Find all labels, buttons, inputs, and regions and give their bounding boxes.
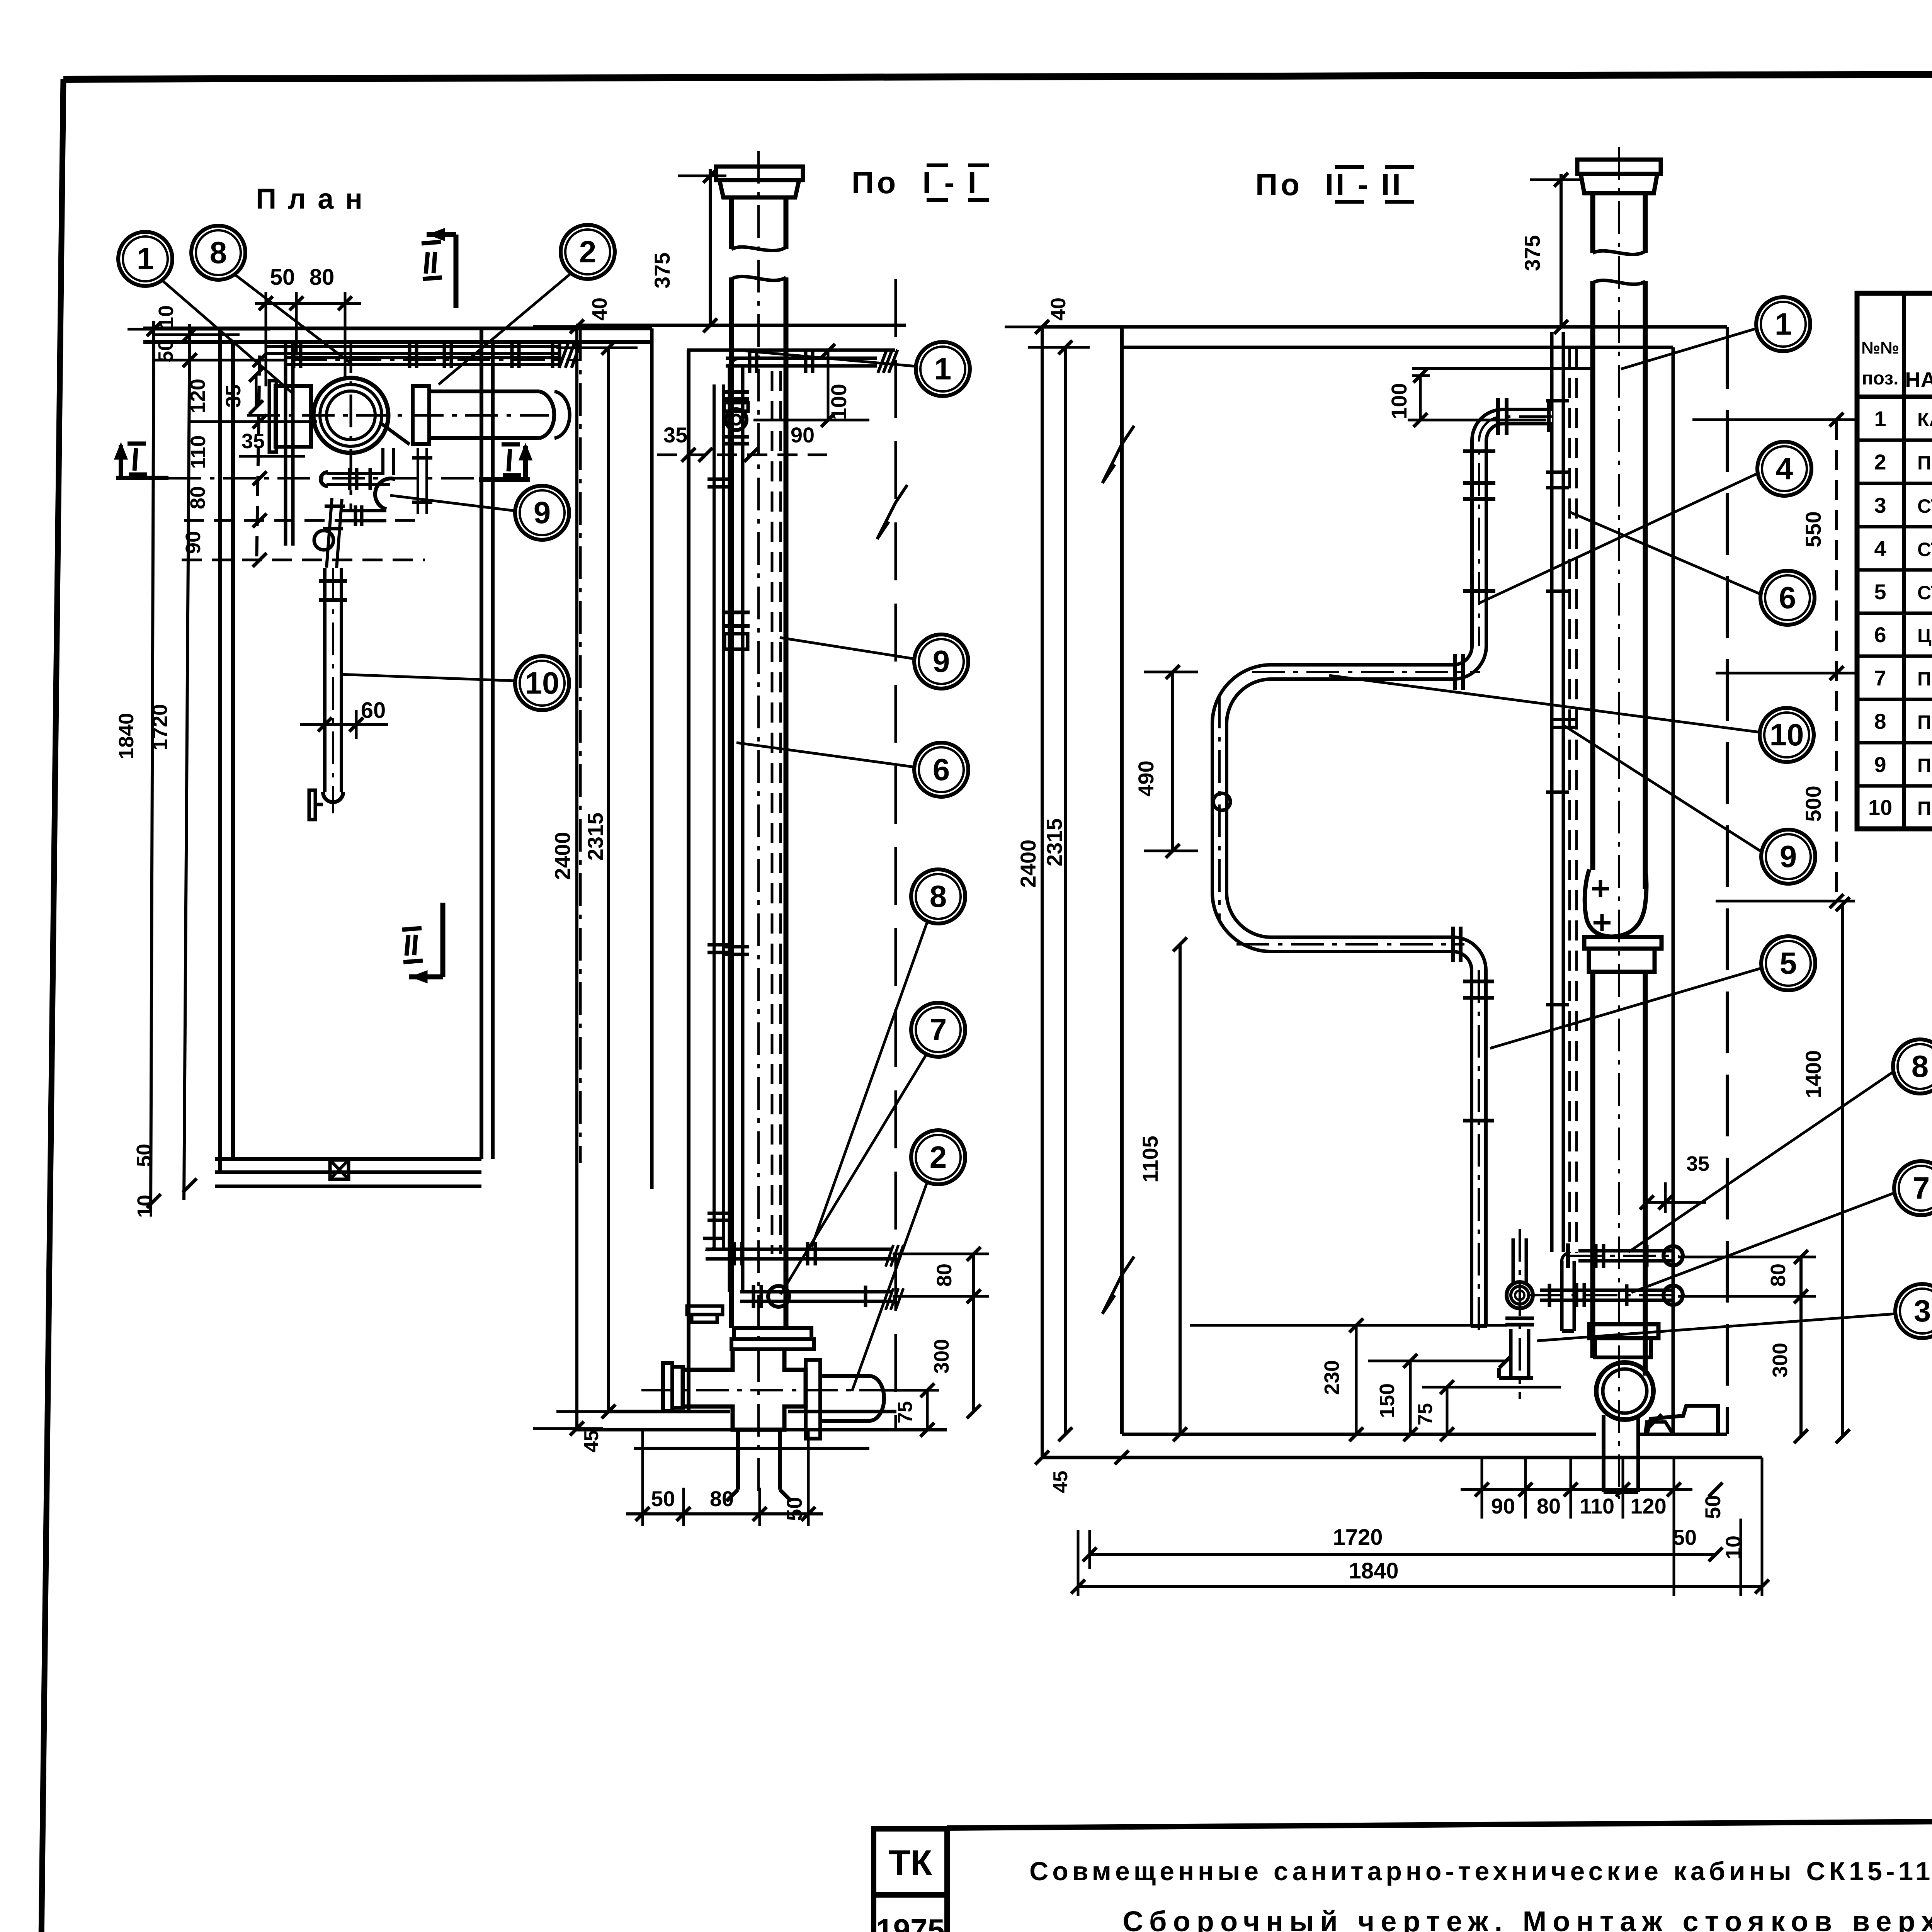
svg-text:1: 1 — [137, 241, 154, 276]
svg-text:50: 50 — [270, 265, 295, 290]
svg-text:8: 8 — [930, 879, 947, 913]
II-II bottom dims 90 80 110 120 — [1461, 1488, 1692, 1491]
II-II dims 230/150/75 — [1355, 1325, 1358, 1434]
II-II collars on riser bundle — [1546, 399, 1569, 403]
svg-text:№№: №№ — [1861, 338, 1899, 357]
II-II canal branch fitting — [1585, 869, 1646, 937]
svg-text:По: По — [852, 165, 899, 200]
svg-text:150: 150 — [1376, 1383, 1399, 1418]
I-I canal stack bell top — [716, 167, 803, 180]
plan: tee right socket — [413, 386, 429, 444]
svg-text:35: 35 — [241, 430, 265, 453]
svg-text:9: 9 — [1780, 839, 1797, 874]
svg-text:поз.: поз. — [1862, 368, 1899, 389]
plan: lower small tee on canal — [417, 448, 428, 514]
svg-text:80: 80 — [310, 265, 335, 290]
svg-text:6: 6 — [1779, 580, 1796, 615]
svg-text:Сборочный чертеж. Монтаж сто: Сборочный чертеж. Монтаж стояков верхнег… — [1122, 1905, 1932, 1932]
II-II canal floor flange — [1596, 1362, 1653, 1420]
plan: bottom wall — [215, 1157, 481, 1161]
svg-text:9: 9 — [933, 644, 950, 679]
svg-text:1: 1 — [934, 352, 952, 386]
svg-text:2315: 2315 — [583, 813, 607, 861]
svg-text:5: 5 — [1780, 946, 1797, 980]
plan: canal tee circles — [313, 378, 388, 453]
svg-text:5: 5 — [1874, 580, 1886, 604]
svg-text:10: 10 — [525, 666, 560, 700]
svg-text:45: 45 — [1049, 1471, 1072, 1493]
svg-text:50: 50 — [782, 1497, 806, 1521]
svg-text:ПОДВОДКА ХОЛОДНОЙ ВОДЫ: ПОДВОДКА ХОЛОДНОЙ ВОДЫ — [1917, 668, 1932, 690]
II-II feed pipes bottom (pos.7/8) — [1578, 1249, 1673, 1253]
plan: horizontal extension rows — [128, 328, 270, 331]
plan: callout 9 — [515, 486, 569, 540]
svg-text:I - I: I - I — [922, 165, 979, 200]
svg-text:4: 4 — [1874, 536, 1886, 561]
svg-text:1840: 1840 — [1349, 1558, 1398, 1583]
svg-text:110: 110 — [187, 435, 210, 469]
II-II dim 490 — [1171, 672, 1174, 851]
II-II left wall — [1120, 327, 1124, 1434]
svg-text:10: 10 — [133, 1195, 156, 1218]
plan: section mark I right — [479, 477, 530, 482]
II-II hot riser top part (pos.4) collars — [1463, 449, 1495, 453]
I-I dims 80/300/75 right — [893, 1253, 989, 1255]
svg-text:80: 80 — [1537, 1494, 1561, 1518]
svg-text:490: 490 — [1134, 760, 1158, 796]
II-II break mark on left wall — [1102, 426, 1134, 483]
II-II cold water riser (pos.3) — [1512, 1238, 1515, 1283]
svg-text:ПЕРЕМЫЧКА ГОРЯЧЕЙ ВОДЫ: ПЕРЕМЫЧКА ГОРЯЧЕЙ ВОДЫ — [1917, 754, 1932, 776]
svg-text:375: 375 — [650, 252, 674, 288]
plan: towel pipe bracket — [309, 790, 315, 820]
plan: tee centerlines — [247, 414, 549, 417]
svg-text:8: 8 — [1874, 709, 1886, 733]
svg-text:50: 50 — [651, 1486, 675, 1511]
II-II circulation riser dashed — [1568, 348, 1571, 1253]
II-II callout 4 — [1757, 442, 1811, 496]
svg-text:100: 100 — [827, 384, 851, 420]
II-II dim 1400 — [1841, 904, 1844, 1436]
plan: callout 10 — [515, 656, 569, 710]
plan: X anchor box — [330, 1160, 349, 1179]
II-II dims 80/300 right — [1678, 1256, 1816, 1259]
II-II callout 8 — [1893, 1039, 1932, 1094]
II-II canal below floor — [1602, 1415, 1605, 1492]
I-I callout 9 — [914, 634, 968, 689]
II-II dim 1720 row — [1090, 1553, 1716, 1556]
svg-text:План: План — [256, 183, 374, 215]
I-I riser B with valve — [728, 367, 731, 1292]
II-II jumper (peremychka pos.9) — [1552, 718, 1577, 721]
sheet border frame — [63, 73, 1932, 79]
svg-text:ПОДВОДКА КАНАЛИЗАЦИИ: ПОДВОДКА КАНАЛИЗАЦИИ — [1917, 452, 1932, 474]
I-I cross left socket — [663, 1363, 672, 1411]
I-I horizontal feed pipes bottom — [706, 1248, 893, 1251]
II-II riser pair D (hot) — [1550, 332, 1554, 1252]
plan: dim 35 pair — [255, 375, 258, 407]
II-II hot riser lower part (pos.5) — [1478, 970, 1480, 1337]
svg-text:230: 230 — [1320, 1360, 1344, 1395]
II-II canal socket at floor — [1589, 1324, 1658, 1338]
II-II callout 10 — [1760, 708, 1814, 762]
II-II canal stack pipe upper — [1590, 193, 1595, 253]
svg-text:80: 80 — [1767, 1264, 1790, 1287]
plan: dim 60 — [300, 723, 388, 726]
II-II callout 3 — [1895, 1284, 1932, 1338]
svg-text:2: 2 — [930, 1140, 947, 1174]
svg-text:2: 2 — [1874, 450, 1886, 474]
svg-text:9: 9 — [534, 495, 551, 530]
plan: section mark II top — [427, 232, 456, 237]
svg-text:375: 375 — [1520, 235, 1544, 271]
svg-text:90: 90 — [791, 423, 815, 447]
svg-text:1720: 1720 — [1333, 1525, 1383, 1550]
svg-text:90: 90 — [1491, 1494, 1515, 1518]
I-I canal centerline — [757, 151, 760, 1495]
plan: shaft partition — [284, 342, 287, 546]
I-I riser flange at floor — [687, 1306, 723, 1315]
svg-text:4: 4 — [1776, 451, 1793, 486]
plan: towel pipe (pos.10) — [323, 568, 343, 792]
svg-text:50: 50 — [1673, 1525, 1697, 1549]
I-I collar above cross — [734, 1328, 811, 1339]
svg-text:1: 1 — [1775, 307, 1792, 341]
svg-text:По: По — [1255, 167, 1303, 202]
svg-text:2: 2 — [579, 235, 597, 269]
svg-text:1840: 1840 — [115, 713, 138, 759]
svg-text:10: 10 — [1868, 795, 1892, 820]
svg-text:2315: 2315 — [1042, 818, 1066, 867]
plan: section mark II bottom — [440, 903, 446, 977]
svg-text:Совмещенные санитарно-техниче: Совмещенные санитарно-технические кабины… — [1029, 1857, 1932, 1886]
plan: branch pipes cluster — [327, 472, 390, 486]
I-I bottom dims 50 80 50 — [626, 1512, 823, 1515]
plan: tee left socket — [276, 386, 311, 447]
svg-text:7: 7 — [1913, 1171, 1930, 1205]
I-I floor lines — [609, 1410, 730, 1413]
svg-text:ПОДВОДКА ГОРЯЧЕЙ ВОДЫ: ПОДВОДКА ГОРЯЧЕЙ ВОДЫ — [1917, 711, 1932, 733]
svg-text:СТОЯК ГОРЯЧЕЙ ВОДЫ(ВЕРХНЯЯ Ч: СТОЯК ГОРЯЧЕЙ ВОДЫ(ВЕРХНЯЯ ЧАСТЬ) — [1917, 538, 1932, 560]
svg-text:500: 500 — [1801, 786, 1825, 821]
svg-text:8: 8 — [1912, 1049, 1929, 1083]
plan: callout 8 — [191, 226, 245, 280]
svg-text:СТОЯК ГОРЯЧЕЙ ВОДЫ (НИЖНЯЯ Ч: СТОЯК ГОРЯЧЕЙ ВОДЫ (НИЖНЯЯ ЧАСТЬ) — [1917, 582, 1932, 604]
II-II callout 9 — [1761, 830, 1815, 884]
II-II dims 375/40 top — [1560, 174, 1563, 327]
svg-text:2400: 2400 — [550, 832, 575, 880]
II-II canal bell top — [1577, 160, 1661, 174]
plan: pipe wall anchor hatches — [559, 342, 569, 368]
svg-text:40: 40 — [588, 298, 611, 321]
svg-text:2400: 2400 — [1016, 840, 1040, 888]
svg-text:300: 300 — [930, 1339, 953, 1374]
svg-text:СТОЯК ХОЛОДНОЙ ВОДЫ: СТОЯК ХОЛОДНОЙ ВОДЫ — [1917, 495, 1932, 517]
II-II floor pedestal — [1647, 1406, 1718, 1434]
svg-text:75: 75 — [1414, 1403, 1437, 1425]
svg-text:80: 80 — [710, 1486, 734, 1511]
I-I bottom outlet pipe — [736, 1430, 740, 1490]
svg-text:50: 50 — [133, 1144, 156, 1167]
II-II canal socket below branch — [1584, 937, 1662, 949]
I-I callout 8 — [911, 869, 965, 923]
svg-text:100: 100 — [1387, 383, 1411, 419]
II-II floor tick row — [1115, 1451, 1129, 1464]
svg-text:7: 7 — [930, 1012, 947, 1047]
I-I cross fitting — [683, 1349, 806, 1430]
I-I dim 375 — [709, 169, 712, 325]
I-I top horizontal feed pipe — [726, 357, 877, 360]
svg-text:НАИМЕНОВАНИЕ УЗЛОВ ТРУБОПРОВ: НАИМЕНОВАНИЕ УЗЛОВ ТРУБОПРОВОДОВ — [1905, 367, 1932, 392]
plan: section line I-I — [168, 477, 499, 480]
plan: cabin left wall — [218, 328, 222, 1172]
plan: section mark I left — [116, 476, 168, 480]
II-II callout 7 — [1894, 1161, 1932, 1215]
svg-text:550: 550 — [1801, 511, 1825, 547]
II-II loop vent — [1213, 793, 1230, 810]
II-II loop centerlines — [1252, 671, 1480, 673]
I-I valve on riser B — [726, 409, 747, 430]
plan: wall piping runs — [267, 345, 558, 348]
plan: callout 1 — [118, 232, 172, 286]
plan: top dim 50 80 — [255, 302, 361, 305]
svg-text:50: 50 — [154, 339, 177, 362]
II-II left dim chains 2400/2315 — [1041, 327, 1044, 1458]
plan: wall axis dash-dot — [579, 328, 582, 1163]
svg-text:6: 6 — [933, 752, 950, 787]
I-I pipe break marks — [731, 247, 786, 250]
svg-text:80: 80 — [186, 486, 209, 509]
II-II dim 1840 row — [1078, 1585, 1762, 1588]
svg-text:35: 35 — [663, 423, 687, 447]
I-I shaft left wall — [687, 350, 690, 1412]
I-I dim 100 — [827, 351, 830, 420]
title block: TK / 1975 stamp — [874, 1829, 947, 1932]
II-II dim 1105 — [1179, 944, 1182, 1434]
svg-text:1720: 1720 — [148, 704, 172, 750]
svg-text:120: 120 — [186, 379, 209, 413]
svg-text:6: 6 — [1874, 622, 1886, 647]
II-II callout 1 — [1756, 297, 1810, 351]
svg-text:7: 7 — [1874, 666, 1886, 690]
parts table grid — [1857, 293, 1932, 829]
I-I ceiling slab lines — [576, 324, 906, 327]
I-I callout 2 — [911, 1130, 965, 1184]
II-II top horizontal pipe + hot riser + towel loop + lower riser: continuous run — [1219, 417, 1552, 1326]
plan: canal pipe to right — [429, 389, 539, 393]
I-I callout 6 — [914, 743, 968, 797]
II-II right dim chain 550/500 — [1835, 420, 1838, 901]
svg-text:3: 3 — [1914, 1294, 1931, 1328]
title block top rule — [947, 1816, 1932, 1828]
svg-text:35: 35 — [1686, 1152, 1709, 1175]
plan: left dimension chains — [151, 321, 154, 1213]
plan: right outer edge — [650, 328, 654, 1189]
svg-text:75: 75 — [894, 1401, 917, 1423]
svg-text:1400: 1400 — [1801, 1050, 1825, 1099]
I-I callout 1 — [916, 342, 970, 396]
plan: shaft right wall — [480, 328, 483, 1159]
I-I left dim chains 2400/2315 — [575, 327, 578, 1429]
I-I riser A (hot water) — [713, 384, 716, 1248]
svg-text:120: 120 — [1630, 1494, 1666, 1518]
I-I axis row through cross — [641, 1389, 889, 1391]
svg-text:35: 35 — [222, 384, 245, 408]
svg-text:80: 80 — [933, 1264, 956, 1287]
II-II right wall lines — [1672, 347, 1675, 1434]
svg-text:10: 10 — [155, 305, 178, 328]
svg-text:45: 45 — [580, 1430, 603, 1452]
II-II floor lines — [1122, 1433, 1596, 1436]
II-II dim 35 at canal — [1643, 1201, 1706, 1204]
II-II dim 100 — [1412, 374, 1430, 377]
I-I canal stack pipe — [729, 197, 734, 249]
I-I break mark on boundary — [877, 485, 907, 539]
svg-text:9: 9 — [1874, 752, 1886, 777]
svg-text:90: 90 — [182, 531, 205, 554]
I-I shaft right boundary dashed — [895, 279, 897, 1430]
I-I callout 7 — [911, 1003, 965, 1057]
II-II canal centerline — [1618, 147, 1620, 1499]
I-I collars on risers — [707, 478, 730, 481]
II-II circulation dead-end stub — [1560, 1261, 1564, 1331]
svg-text:40: 40 — [1047, 298, 1070, 321]
I-I dim 35 / 90 row — [657, 454, 827, 456]
svg-text:110: 110 — [1580, 1494, 1614, 1518]
svg-text:10: 10 — [1770, 718, 1804, 752]
plan: callout 2 — [561, 225, 615, 279]
svg-text:1975: 1975 — [876, 1913, 945, 1932]
I-I riser C dashed (circulation) — [771, 371, 774, 1254]
svg-text:II - II: II - II — [1325, 167, 1403, 202]
svg-text:ТК: ТК — [889, 1843, 932, 1883]
II-II pedestal at canal — [1645, 1422, 1673, 1434]
svg-text:60: 60 — [361, 698, 386, 723]
II-II callout 6 — [1760, 571, 1815, 625]
svg-text:300: 300 — [1769, 1343, 1792, 1378]
II-II ceiling lines — [1043, 325, 1727, 329]
svg-text:КАНАЛИЗАЦИОННЫЙ СТОЯК: КАНАЛИЗАЦИОННЫЙ СТОЯК — [1917, 408, 1932, 430]
svg-text:ПОЛОТЕНЦЕСУШИТЕЛЬ: ПОЛОТЕНЦЕСУШИТЕЛЬ — [1917, 798, 1932, 819]
I-I cross right socket — [806, 1360, 820, 1439]
svg-text:1: 1 — [1874, 406, 1886, 431]
II-II callout 5 — [1761, 936, 1815, 990]
svg-text:1105: 1105 — [1138, 1136, 1162, 1183]
svg-text:ЦИРКУЛЯЦИОННЫЙ СТОЯК: ЦИРКУЛЯЦИОННЫЙ СТОЯК — [1917, 624, 1932, 646]
svg-text:50: 50 — [1701, 1495, 1725, 1519]
plan: cabin top wall — [143, 327, 652, 330]
svg-text:3: 3 — [1874, 493, 1886, 517]
svg-text:8: 8 — [210, 235, 227, 270]
II-II break mark lower left — [1102, 1257, 1134, 1314]
II-II pipe break — [1593, 251, 1645, 254]
